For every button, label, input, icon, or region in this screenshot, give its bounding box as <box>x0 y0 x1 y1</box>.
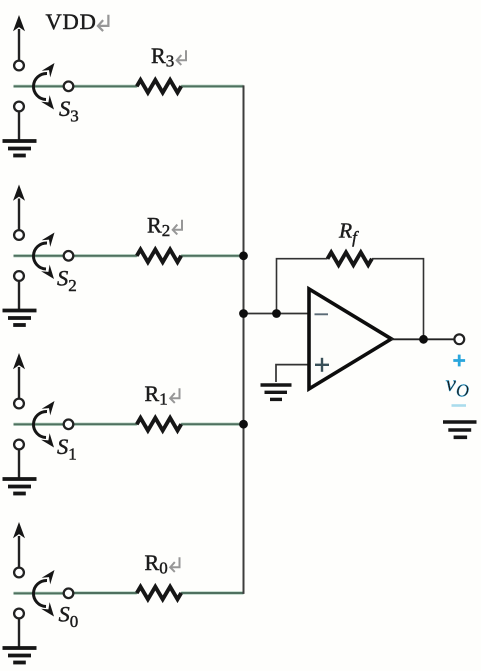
svg-text:VDD: VDD <box>46 9 97 34</box>
svg-text:S0: S0 <box>59 602 79 632</box>
svg-text:vO: vO <box>446 371 469 401</box>
svg-text:R3: R3 <box>151 43 174 71</box>
svg-text:Rf: Rf <box>338 219 359 248</box>
svg-text:R2: R2 <box>147 213 170 241</box>
svg-text:S3: S3 <box>59 96 79 126</box>
svg-text:S1: S1 <box>57 434 77 464</box>
svg-text:S2: S2 <box>57 266 77 296</box>
svg-text:R1: R1 <box>145 381 168 409</box>
svg-text:R0: R0 <box>145 550 168 578</box>
